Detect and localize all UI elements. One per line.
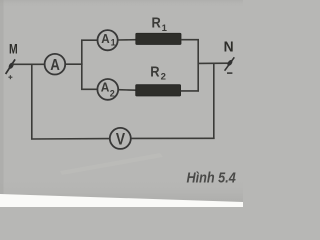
svg-text:2: 2	[161, 71, 166, 82]
svg-text:M: M	[9, 41, 18, 56]
svg-text:A: A	[101, 32, 109, 46]
wire right node to terminal N	[198, 62, 228, 64]
svg-text:V: V	[116, 130, 126, 149]
voltmeter V	[110, 128, 131, 149]
ammeter A1	[98, 30, 118, 50]
ammeter A	[45, 54, 66, 75]
svg-text:1: 1	[111, 38, 116, 48]
wire left branch vertical	[81, 40, 83, 89]
svg-text:1: 1	[162, 23, 168, 34]
resistor R2	[136, 85, 181, 96]
svg-text:A: A	[101, 80, 110, 94]
wire vertical down to bottom	[213, 63, 215, 139]
svg-text:A: A	[50, 57, 60, 74]
svg-text:2: 2	[110, 88, 115, 98]
ammeter A2	[97, 79, 118, 100]
wire R1 to right corner	[181, 39, 199, 41]
wire bottom left segment	[31, 138, 110, 140]
wire right branch vertical	[197, 40, 199, 92]
wire left vertical down from junction	[31, 64, 33, 139]
wire R2 to right corner	[181, 90, 199, 92]
svg-text:Hình 5.4: Hình 5.4	[187, 170, 236, 186]
wire M to ammeter A	[12, 63, 45, 65]
wire branch node to A1	[81, 39, 98, 41]
paper background	[0, 0, 243, 207]
svg-text:R: R	[150, 65, 160, 81]
terminal M	[6, 59, 16, 79]
svg-text:N: N	[224, 39, 234, 56]
svg-text:R: R	[152, 16, 162, 32]
wire branch node to A2	[81, 88, 98, 90]
resistor R1	[136, 33, 181, 44]
wire A1 to R1	[118, 39, 137, 41]
terminal N	[225, 57, 235, 73]
wire A to branch node	[65, 63, 82, 65]
wire bottom right segment	[131, 137, 215, 139]
wire A2 to R2	[118, 89, 136, 92]
